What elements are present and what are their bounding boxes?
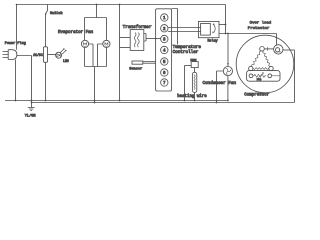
svg-text:6: 6 <box>163 72 166 76</box>
transformer T1 <box>123 25 152 51</box>
svg-text:1: 1 <box>163 17 166 21</box>
condenser fan motor M3 <box>223 67 232 76</box>
wire: plug neutral down to bottom bus <box>15 60 17 101</box>
ground symbol <box>25 103 36 119</box>
node: bus junction earth drop <box>31 100 33 102</box>
node: bus2 junction condenser fan left <box>216 102 218 104</box>
wire: switch to AC/DC converter <box>45 14 47 47</box>
svg-text:YL/GN: YL/GN <box>25 113 36 118</box>
heating wire R1 <box>192 72 196 92</box>
sensor B1 <box>129 61 143 72</box>
node: bus junction condenser fan bottom <box>227 100 229 102</box>
wire: right branch down to motor M2 <box>106 18 108 41</box>
switch S1 <box>45 5 63 16</box>
overload protector OL1 <box>268 45 283 54</box>
wire: heating element to bottom bus <box>194 92 196 100</box>
node: fan top junction <box>227 63 229 65</box>
wire: top line rail <box>17 4 226 6</box>
wire: evaporator fan to bottom bus <box>94 67 96 103</box>
wire: transformer feed from rail down to bottom bus <box>119 5 121 101</box>
wire: fuse to heating element <box>194 68 196 73</box>
LED D1 <box>56 49 69 64</box>
svg-text:AC/DC: AC/DC <box>33 53 43 57</box>
wire: M2 side tap down <box>98 44 103 67</box>
wire: fan left terminal to ground bus <box>217 71 224 103</box>
node: relay upper junction <box>225 24 227 26</box>
relay K1 <box>198 21 219 43</box>
node: bus junction earth bus <box>31 102 33 104</box>
svg-text:2: 2 <box>163 28 166 32</box>
wire: AC/DC to LED <box>48 54 56 56</box>
wire: feed into overload protector <box>276 34 278 46</box>
compressor housing circle <box>236 35 294 93</box>
svg-text:4: 4 <box>163 50 166 54</box>
node: rail drop on output <box>225 33 227 35</box>
evaporator fan: feed wire from rail <box>96 5 98 18</box>
svg-text:7: 7 <box>163 82 166 86</box>
node: bus junction transformer <box>119 100 121 102</box>
svg-text:Evaporator Fan: Evaporator Fan <box>58 31 94 35</box>
AC/DC converter U1 <box>33 47 47 63</box>
node: condenser fan tap <box>227 33 229 35</box>
bottom bus: neutral <box>5 100 228 102</box>
wire: plug earth right then down to ground bus <box>17 56 32 103</box>
svg-text:Switch: Switch <box>50 11 63 16</box>
wire: compressor right riser to bus <box>294 50 296 103</box>
svg-text:3: 3 <box>163 39 166 43</box>
node: winding bottom left terminal <box>249 66 253 70</box>
svg-text:heating wire: heating wire <box>177 94 207 99</box>
bottom bus: earth <box>32 102 295 104</box>
svg-text:LED: LED <box>63 59 69 63</box>
wire: M2 bottom down <box>106 48 108 67</box>
terminal pin 3 <box>161 35 168 42</box>
wire: evaporator fan top bar <box>85 17 107 19</box>
wire: relay output to compressor <box>219 33 277 35</box>
wire: protector to motor top terminal <box>264 48 273 50</box>
node: bus junction plug neutral <box>15 100 17 102</box>
fuse F1 <box>190 59 198 67</box>
terminal pin 6 <box>161 69 168 76</box>
wire: plug live up to rail <box>16 5 18 50</box>
node: bus junction heating element <box>194 100 196 102</box>
wire: primary stub upper <box>120 37 131 39</box>
power plug P1 <box>3 41 26 59</box>
wire: condenser fan feed drop <box>227 34 229 67</box>
node: rail junction evaporator fan <box>96 4 98 6</box>
wire: left branch down to motor M1 <box>84 18 86 41</box>
node: rail junction transformer <box>119 4 121 6</box>
wire: secondary stubs and bridge <box>144 34 146 42</box>
wire: secondary to terminal 3 <box>146 38 161 40</box>
node: winding top terminal <box>260 47 265 52</box>
node: bus junction heater branch <box>184 100 186 102</box>
wire: fan bottom to bottom bus <box>227 76 229 101</box>
node: secondary wire on controller edge <box>155 38 157 40</box>
compressor motor winding triangle <box>252 51 271 70</box>
wire: M1 side tap down <box>89 44 93 67</box>
motor M1 evaporator fan <box>81 40 88 47</box>
svg-text:Condenser Fan: Condenser Fan <box>203 81 237 86</box>
node: rail corner at plug riser <box>16 4 18 6</box>
node: winding bottom right terminal <box>269 66 273 70</box>
node: bus2 junction evaporator fan <box>94 102 96 104</box>
wire: sensor pair to terminal 5 <box>143 62 156 64</box>
wire: primary stub lower <box>120 47 131 49</box>
temperature controller terminal block U2 <box>156 9 172 91</box>
svg-text:Controller: Controller <box>173 50 199 55</box>
node: bus1 crossing condenser fan left <box>216 100 218 102</box>
wire: terminal 2 to relay coil lower <box>168 31 201 33</box>
svg-text:Protector: Protector <box>248 26 270 31</box>
terminal pin 2 <box>161 25 168 32</box>
wire: protector right to neutral riser <box>283 49 295 51</box>
terminal pin 5 <box>161 58 168 65</box>
svg-text:Relay: Relay <box>208 38 218 43</box>
terminal pin 4 <box>161 46 168 53</box>
svg-text:Sensor: Sensor <box>129 67 142 72</box>
node: bus junction AC/DC <box>45 100 47 102</box>
terminal pin 7 <box>161 79 168 86</box>
wire: AC/DC down to bottom bus <box>45 62 47 100</box>
wire: terminal 2 to relay coil upper <box>168 27 201 29</box>
svg-text:Transformer: Transformer <box>123 25 152 30</box>
svg-text:PTC: PTC <box>257 79 262 82</box>
PTC starter U3 <box>247 71 280 82</box>
wire: relay upper right to rail drop <box>219 24 226 26</box>
wire: terminal block top tap right then down <box>172 9 178 45</box>
wire: heater branch stub to fuse box <box>185 65 192 67</box>
wire: rail right drop to relay output <box>225 5 227 34</box>
terminal pin 1 <box>161 14 168 21</box>
motor M2 evaporator fan <box>103 40 110 47</box>
wire: evaporator fan bottom bar <box>85 66 107 68</box>
svg-text:5: 5 <box>163 61 166 65</box>
svg-text:Over load: Over load <box>250 21 272 26</box>
svg-text:Compressor: Compressor <box>244 94 270 98</box>
wire: M1 bottom down <box>84 48 86 67</box>
node: bus junction evaporator fan <box>94 100 96 102</box>
svg-text:Power Plug: Power Plug <box>5 41 26 46</box>
wire: heater branch vertical to bus <box>184 66 186 101</box>
